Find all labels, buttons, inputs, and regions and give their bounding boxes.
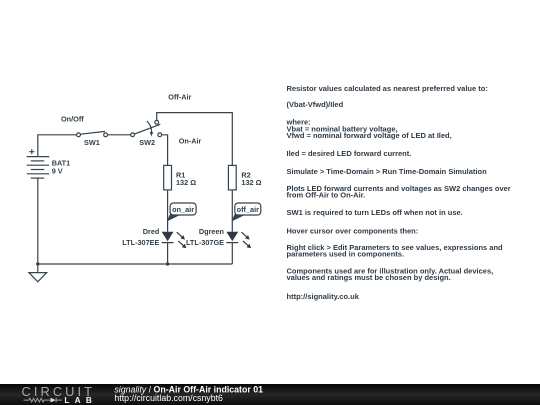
wire battery bottom to ground node bbox=[37, 178, 39, 264]
svg-text:132 Ω: 132 Ω bbox=[176, 178, 196, 187]
svg-text:LAB: LAB bbox=[64, 395, 97, 405]
logo resistor-diode line bbox=[24, 398, 62, 403]
wire battery top to SW1 bbox=[38, 135, 77, 157]
node flag off_air bbox=[231, 203, 260, 222]
svg-text:Vfwd = nominal forward voltage: Vfwd = nominal forward voltage of LED at… bbox=[287, 131, 452, 140]
battery plus sign bbox=[29, 149, 34, 154]
wire R2 to Dgreen bbox=[231, 190, 233, 232]
svg-text:Resistor values calculated as: Resistor values calculated as nearest pr… bbox=[287, 84, 488, 93]
svg-text:Simulate > Time-Domain > Run T: Simulate > Time-Domain > Run Time-Domain… bbox=[287, 167, 488, 176]
svg-text:Hover cursor over components t: Hover cursor over components then: bbox=[287, 226, 419, 235]
svg-text:Off-Air: Off-Air bbox=[168, 92, 191, 101]
LED Dred bbox=[162, 232, 187, 249]
svg-text:on_air: on_air bbox=[172, 205, 194, 214]
wire Dred to bottom rail bbox=[167, 243, 169, 264]
svg-text:Dred: Dred bbox=[143, 227, 160, 236]
wire R1 to Dred bbox=[167, 190, 169, 232]
wire SW2 bottom throw to R1 bbox=[162, 135, 168, 166]
switch SW2 bbox=[131, 120, 162, 136]
svg-text:SW2: SW2 bbox=[139, 138, 155, 147]
node flag on_air bbox=[167, 203, 197, 222]
svg-text:LTL-307GE: LTL-307GE bbox=[186, 238, 224, 247]
ground bbox=[29, 264, 47, 282]
svg-text:9 V: 9 V bbox=[52, 166, 63, 175]
footer bar bbox=[0, 384, 540, 405]
svg-text:SW1: SW1 bbox=[84, 138, 100, 147]
junction dot at ground node bbox=[36, 262, 39, 265]
battery BAT1 bbox=[27, 157, 50, 179]
svg-text:from Off-Air to On-Air.: from Off-Air to On-Air. bbox=[287, 191, 366, 200]
wire Dgreen to bottom rail bbox=[231, 243, 233, 264]
LED Dgreen bbox=[226, 232, 251, 249]
svg-text:SW1 is required to turn LEDs o: SW1 is required to turn LEDs off when no… bbox=[287, 208, 463, 217]
svg-text:Iled = desired LED forward cur: Iled = desired LED forward current. bbox=[287, 149, 412, 158]
switch SW1 bbox=[77, 131, 108, 136]
svg-text:(Vbat-Vfwd)/Iled: (Vbat-Vfwd)/Iled bbox=[287, 100, 344, 109]
svg-text:parameters used in components.: parameters used in components. bbox=[287, 249, 405, 258]
svg-text:http://signality.co.uk: http://signality.co.uk bbox=[287, 292, 360, 301]
svg-text:http://circuitlab.com/csnybt6: http://circuitlab.com/csnybt6 bbox=[114, 393, 223, 403]
resistor R1 bbox=[164, 165, 172, 190]
svg-text:On/Off: On/Off bbox=[61, 115, 84, 124]
wire SW1 to SW2 bbox=[108, 134, 131, 136]
junction dot at Dred cathode / bottom rail bbox=[166, 262, 169, 265]
resistor R2 bbox=[228, 165, 236, 190]
svg-text:off_air: off_air bbox=[237, 205, 259, 214]
wire SW2 top throw to Off-Air rail and down to R2 bbox=[157, 113, 233, 166]
svg-text:values and ratings must be cho: values and ratings must be chosen by des… bbox=[287, 273, 451, 282]
wire bottom rail bbox=[38, 263, 233, 265]
svg-text:132 Ω: 132 Ω bbox=[241, 178, 261, 187]
svg-text:On-Air: On-Air bbox=[179, 136, 202, 145]
svg-text:Dgreen: Dgreen bbox=[199, 227, 224, 236]
svg-text:LTL-307EE: LTL-307EE bbox=[122, 238, 159, 247]
